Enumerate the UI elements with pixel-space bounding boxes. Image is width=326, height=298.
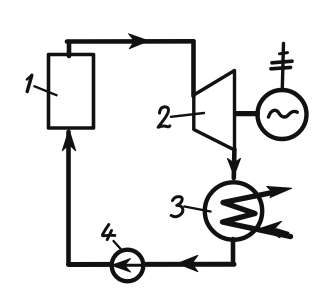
wire: left vertical up to boiler (66, 132, 71, 265)
arrow on bottom wire (leftward) (178, 255, 198, 271)
mast tick small (280, 53, 288, 54)
arrow on top wire (rightward) (129, 34, 149, 49)
label 1 (27, 75, 32, 91)
leader line for 1 (35, 86, 57, 95)
cooling water outlet arrow (up-right) (267, 187, 292, 198)
sine mark inside generator (269, 110, 298, 117)
pump flow arrow (leftward) (124, 264, 141, 267)
wire: top horizontal (67, 39, 194, 44)
pump 4 (112, 250, 144, 282)
leader line for 4 (114, 241, 124, 252)
wire: boiler top stub (67, 42, 72, 57)
cooling water zigzag through condenser (223, 193, 291, 237)
leader line for 2 (171, 113, 204, 117)
wire: bottom horizontal (69, 262, 235, 267)
label 4 (102, 225, 114, 240)
mast bar 2 (271, 67, 291, 68)
shaft turbine to generator (236, 111, 258, 116)
wire: right vertical down to turbine (191, 41, 196, 96)
grid-connection mast above generator (282, 44, 283, 89)
arrow into condenser (downward) (228, 158, 241, 176)
arrow into boiler (upward) (62, 130, 75, 151)
cooling water inlet arrow (pointing left into condenser) (262, 221, 282, 238)
label 2 (158, 107, 170, 127)
boiler 1 (49, 55, 94, 129)
condenser 3 (205, 182, 262, 239)
mast bar 1 (272, 61, 292, 63)
leader line for 3 (185, 207, 211, 212)
generator G (258, 90, 307, 139)
inlet arrow tail feathers (277, 230, 289, 234)
label 3 (171, 197, 183, 217)
wire: condenser bottom stub (231, 239, 236, 264)
wire: turbine exhaust down to condenser (232, 149, 237, 178)
turbine 2 (194, 71, 235, 151)
